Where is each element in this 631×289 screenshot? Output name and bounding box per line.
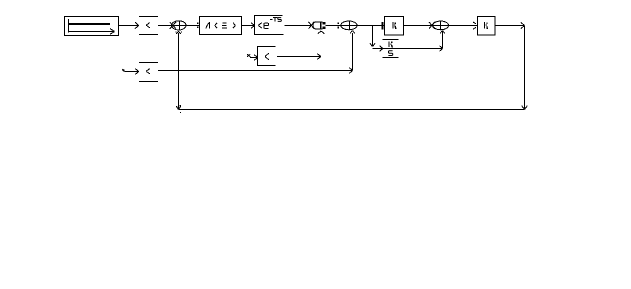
arrowhead into delay	[251, 23, 254, 26]
hold block glyph <	[265, 53, 269, 56]
X arrowhead into summer 1	[170, 22, 176, 29]
down arrowhead at branch foot	[370, 43, 373, 46]
delay glyph <	[258, 23, 262, 26]
integrator glyph S	[388, 51, 392, 56]
up arrowhead into summer 3	[440, 31, 443, 34]
output wire from K2	[495, 25, 525, 27]
summing junction 1	[172, 21, 186, 30]
signal source axis vertical	[68, 19, 70, 33]
delay block e^-TS (open right)	[254, 16, 256, 35]
gain block K2	[478, 17, 496, 36]
wire delay to multiplier	[285, 25, 312, 27]
arrowhead at output corner	[521, 22, 525, 25]
corner arrowhead at integrator output	[439, 46, 442, 49]
sampler S2 glyph	[146, 69, 150, 72]
X tick at hold block stub start	[247, 54, 251, 57]
up arrowhead into summer 2	[350, 31, 353, 34]
feedback riser into summer 2	[352, 33, 354, 71]
hook at sampler S2 stub start	[123, 69, 125, 72]
K1 glyph K	[392, 22, 394, 28]
wire summer 2 to gain K1	[357, 25, 385, 27]
summing junction 3	[433, 21, 449, 30]
wire K1 to summer 3	[404, 25, 431, 27]
riser into summer 3	[442, 31, 444, 49]
K2 glyph K	[483, 22, 485, 28]
hold block (open right)	[257, 46, 259, 66]
feedback wire to summer 2	[158, 70, 353, 72]
hold block output wire	[277, 56, 321, 58]
arrow dots at K1 input	[381, 22, 383, 24]
wire summer 1 to W(s) block	[187, 25, 200, 27]
arrowhead into K2	[473, 22, 476, 24]
signal source time axis	[69, 31, 115, 33]
delay superscript S	[278, 18, 282, 22]
gain block K1	[385, 17, 404, 36]
main feedback wire	[179, 109, 525, 111]
integrator K/S top bar	[383, 39, 399, 41]
hold block input stub	[250, 57, 258, 59]
arrowhead at hold output end	[317, 54, 321, 57]
down arrowhead at output drop foot	[522, 106, 525, 110]
multiplier junction body	[313, 22, 316, 29]
arrowhead into hold block	[254, 55, 257, 58]
branch node to integrator	[372, 26, 374, 47]
W(s) glyph (	[215, 23, 217, 26]
delay superscript minus	[270, 19, 273, 21]
sampler S1 bottom bar	[139, 34, 158, 36]
W(s) glyph )	[233, 23, 235, 26]
arrow dots at summer 2 input	[338, 22, 339, 24]
corner arrowhead at summer-2 riser foot	[349, 68, 352, 71]
integrator output wire	[399, 48, 443, 50]
signal source step level (thick)	[68, 23, 110, 25]
branch elbow to integrator	[373, 48, 383, 50]
integrator fraction bar	[383, 48, 399, 50]
W(s) block	[200, 17, 242, 35]
wire multiplier to summer 2	[326, 25, 342, 27]
delay superscript T	[273, 16, 277, 18]
wire sampler to summer 1	[158, 25, 172, 27]
signal source block	[65, 17, 119, 36]
delay glyph e	[264, 22, 268, 24]
output drop line	[524, 26, 526, 110]
sampler S1 top bar	[139, 16, 158, 18]
sampler S2 top bar	[139, 62, 158, 64]
arrowhead into integrator	[379, 46, 383, 49]
W(s) glyph S	[222, 22, 226, 24]
summing junction 2	[341, 21, 357, 30]
dots at feedback left corner	[180, 105, 181, 106]
wire summer 3 to gain K2	[449, 25, 478, 27]
integrator bottom bar	[383, 57, 399, 59]
up arrowhead into summer 1	[176, 31, 178, 34]
integrator glyph K	[388, 41, 390, 47]
W(s) glyph W	[208, 22, 210, 28]
sampler S2 bottom bar	[139, 81, 158, 83]
caret below multiplier	[318, 31, 321, 34]
sampler S1 glyph	[146, 23, 150, 26]
X arrowhead into multiplier	[309, 22, 315, 29]
wire W(s) to delay	[242, 25, 255, 27]
signal source axis arrowhead	[110, 29, 115, 32]
sampler S2 input stub	[125, 71, 139, 73]
dots near summer 1 bottom	[176, 31, 177, 32]
arrowhead into sampler	[135, 22, 139, 25]
arrowhead into sampler S2	[135, 69, 139, 72]
wire source to sampler	[119, 25, 139, 27]
X arrowhead into summer 3	[429, 22, 435, 29]
arrow dots at W(s) input	[197, 23, 199, 25]
feedback riser into summer 1	[178, 33, 180, 110]
down arrowhead at feedback left corner	[176, 106, 178, 109]
